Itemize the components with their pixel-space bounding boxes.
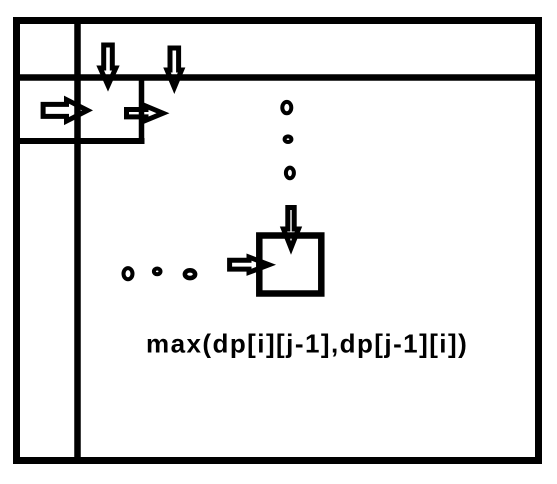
horizontal ellipsis dot 1 — [124, 268, 133, 279]
formula label max(dp[i][j-1],dp[j-1][i]) — [146, 328, 468, 358]
down block arrow 2 — [167, 48, 182, 88]
highlighted cell box bottom edge wire — [13, 138, 145, 144]
down block arrow 1 — [100, 45, 116, 86]
column divider wire — [74, 17, 81, 464]
horizontal ellipsis dot 3 — [185, 270, 195, 278]
right block arrow 1 — [43, 100, 87, 121]
row divider wire — [13, 74, 542, 81]
current cell square — [259, 236, 321, 294]
vertical ellipsis dot 3 — [286, 168, 294, 179]
vertical ellipsis dot 1 — [282, 102, 291, 113]
vertical ellipsis dot 2 — [285, 136, 292, 142]
svg-text:max(dp[i][j-1],dp[j-1][i]): max(dp[i][j-1],dp[j-1][i]) — [146, 328, 468, 358]
horizontal ellipsis dot 2 — [154, 269, 161, 275]
down block arrow 3 into square — [284, 208, 299, 249]
right block arrow 2 — [127, 106, 164, 120]
right block arrow 4 into square — [230, 257, 269, 272]
highlighted cell box right edge wire — [139, 75, 145, 144]
